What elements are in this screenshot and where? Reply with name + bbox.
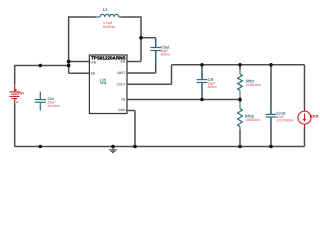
svg-text:GND: GND — [118, 108, 126, 112]
svg-text:Iout: Iout — [310, 113, 319, 119]
svg-text:316kOhm: 316kOhm — [246, 83, 261, 87]
svg-text:CBST: CBST — [117, 71, 126, 75]
svg-text:U1: U1 — [100, 77, 107, 86]
svg-text:100kOhm: 100kOhm — [245, 118, 260, 122]
svg-text:EN: EN — [91, 72, 96, 76]
svg-text:5mOhm: 5mOhm — [48, 104, 60, 108]
svg-text:FB: FB — [121, 98, 125, 102]
svg-text:VOUT: VOUT — [117, 83, 126, 87]
svg-text:Vin: Vin — [17, 90, 24, 95]
svg-text:L1: L1 — [103, 7, 108, 12]
svg-text:8Ohm: 8Ohm — [208, 85, 217, 89]
svg-text:8mOhm: 8mOhm — [103, 25, 115, 29]
svg-text:VIN: VIN — [91, 60, 97, 64]
svg-text:8Ohm: 8Ohm — [161, 53, 170, 57]
svg-text:SW: SW — [120, 60, 125, 64]
svg-text:3.017kOhm: 3.017kOhm — [276, 119, 294, 123]
